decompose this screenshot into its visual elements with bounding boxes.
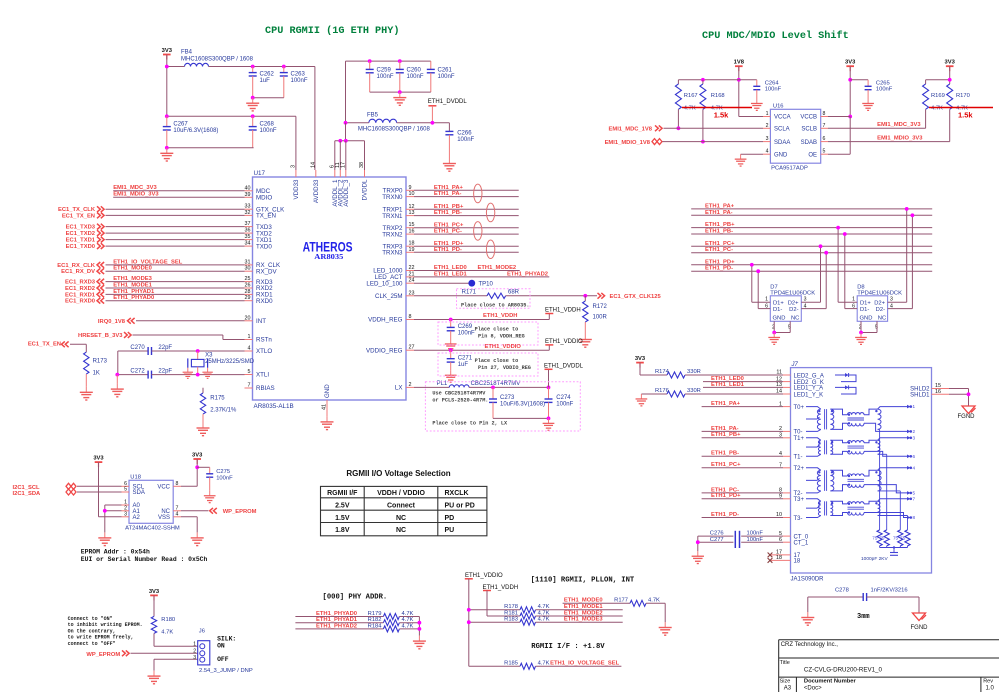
svg-text:ETH1_PB-: ETH1_PB- [711, 451, 739, 457]
svg-text:27: 27 [409, 345, 415, 351]
svg-text:C265: C265 [876, 80, 890, 86]
svg-text:ETH1_PA-: ETH1_PA- [705, 210, 733, 216]
svg-text:to inhibit writing EPROM.: to inhibit writing EPROM. [68, 622, 143, 628]
wire AVDDL manifold [345, 123, 347, 141]
svg-text:100nF: 100nF [458, 331, 475, 337]
svg-text:Document Number: Document Number [804, 678, 857, 684]
U18 pin 7 NC [173, 510, 181, 512]
connector J6 2.54_3_JUMP [198, 641, 210, 665]
svg-text:CRZ Technology Inc.,: CRZ Technology Inc., [781, 642, 839, 648]
J7 pin 6 CT_1 [783, 541, 791, 543]
svg-text:AVDD33: AVDD33 [313, 179, 320, 203]
svg-text:16: 16 [409, 229, 415, 235]
svg-text:ETH1_VDDH: ETH1_VDDH [483, 313, 517, 319]
svg-text:AT24MAC402-SSHM: AT24MAC402-SSHM [125, 526, 180, 532]
svg-text:100nF: 100nF [407, 74, 424, 80]
wire ETH1_VDDH (pin8) [414, 319, 549, 321]
U18 pin 4 VSS [173, 516, 181, 518]
svg-text:4.7K: 4.7K [161, 630, 173, 636]
svg-text:WP_EPROM: WP_EPROM [223, 509, 257, 515]
svg-text:6: 6 [823, 136, 826, 142]
ground under C264 [756, 99, 758, 104]
svg-text:EC1_RXD0: EC1_RXD0 [65, 299, 95, 305]
U17 pin 31 RX_CLK [245, 264, 253, 266]
svg-text:TRXN3: TRXN3 [382, 250, 403, 257]
port EC1_GTX_CLK125 [598, 293, 601, 299]
J7 pin 13 LED1_Y_A [783, 386, 791, 388]
svg-text:R177: R177 [614, 598, 628, 604]
U17 pin 5 XTLI [245, 374, 253, 376]
svg-text:1: 1 [248, 334, 251, 340]
wire R171 to port [506, 295, 597, 297]
resistor R180 4.7K [151, 616, 156, 633]
resistor R177 4.7K [630, 600, 646, 606]
red strike R167/R168 [682, 107, 752, 109]
svg-text:4: 4 [766, 149, 769, 155]
svg-text:TX_EN: TX_EN [256, 213, 276, 220]
svg-text:FB4: FB4 [181, 50, 193, 56]
svg-text:ETH1_PD+: ETH1_PD+ [711, 493, 741, 499]
J7 pin 9 T3+ [783, 498, 791, 500]
svg-text:3: 3 [913, 435, 916, 440]
note box C269 [438, 322, 538, 345]
wire ETH1_PB+ [414, 208, 519, 210]
svg-text:VDDH / VDDIO: VDDH / VDDIO [377, 490, 425, 497]
svg-text:5: 5 [248, 369, 251, 375]
svg-text:NC: NC [791, 316, 799, 322]
svg-text:EMI1_MDC_1V8: EMI1_MDC_1V8 [609, 127, 653, 133]
wire ETH1_IO_VOLTAGE_SEL / R185 [469, 665, 520, 667]
U17 pin 16 TRXN2 [406, 233, 414, 235]
svg-text:R182: R182 [368, 617, 382, 623]
svg-text:C272: C272 [130, 369, 145, 375]
U16 pin 8 VCCB [821, 116, 828, 118]
svg-text:Connect to "ON": Connect to "ON" [68, 616, 113, 622]
svg-text:VCC: VCC [157, 485, 170, 491]
svg-text:100nF: 100nF [260, 128, 277, 134]
svg-text:RX_DV: RX_DV [256, 268, 278, 275]
U17 pin 9 TRXP0 [406, 189, 414, 191]
wire SDAB / EMI1_MDIO_3V3 [828, 141, 950, 143]
U16 pin 2 SCLA [763, 127, 770, 129]
svg-text:C262: C262 [260, 72, 275, 78]
svg-text:3: 3 [193, 655, 196, 661]
svg-text:6: 6 [913, 454, 916, 459]
svg-text:AR8035: AR8035 [314, 253, 343, 261]
J7 pin 10 T3- [783, 517, 791, 519]
svg-text:CLK_25M: CLK_25M [375, 293, 403, 300]
svg-text:R172: R172 [593, 304, 608, 310]
svg-text:75: 75 [900, 536, 906, 541]
svg-text:15: 15 [409, 222, 415, 228]
capacitor C272 22pF (series XTLI) [117, 374, 148, 376]
svg-text:13: 13 [409, 210, 415, 216]
resistor R175 2.37K/1% [202, 388, 204, 393]
wire OE [828, 153, 850, 155]
svg-text:R179: R179 [368, 611, 382, 617]
ground U16 [740, 154, 742, 159]
wire ETH1_MODE2 / R181 [487, 615, 520, 617]
svg-text:1uF: 1uF [458, 362, 469, 368]
svg-text:C273: C273 [500, 395, 515, 401]
svg-text:R171: R171 [462, 289, 477, 295]
svg-text:EPROM Addr : 0x54h: EPROM Addr : 0x54h [81, 549, 150, 556]
ground CT caps [697, 551, 699, 556]
svg-text:10uF/6.3V(1608): 10uF/6.3V(1608) [500, 401, 545, 407]
svg-text:4.7K: 4.7K [538, 604, 550, 610]
svg-text:Connect: Connect [387, 503, 416, 510]
svg-text:100R: 100R [593, 315, 608, 321]
svg-text:25: 25 [245, 276, 251, 282]
U16 pin 6 SDAB [821, 141, 828, 143]
svg-text:75: 75 [879, 536, 885, 541]
svg-text:7: 7 [248, 383, 251, 389]
wire ETH1_PHYAD0 [295, 616, 383, 618]
wire J6 pin3 gnd [154, 658, 198, 660]
diff pair oval ETH1_PA [474, 184, 482, 203]
ground R176 [640, 394, 642, 399]
svg-text:3V3: 3V3 [93, 456, 104, 462]
svg-text:[1110] RGMII, PLLON, INT: [1110] RGMII, PLLON, INT [531, 577, 635, 585]
svg-text:2: 2 [409, 382, 412, 388]
ground bottom-left [166, 148, 168, 154]
svg-text:10uF/6.3V(1608): 10uF/6.3V(1608) [173, 128, 218, 134]
svg-text:CPU MDC/MDIO Level Shift: CPU MDC/MDIO Level Shift [702, 30, 849, 42]
svg-text:18: 18 [794, 559, 801, 565]
svg-text:3V3: 3V3 [635, 356, 646, 362]
svg-text:18: 18 [409, 241, 415, 247]
svg-text:24: 24 [409, 278, 415, 284]
svg-text:ETH1_PD-: ETH1_PD- [711, 512, 739, 518]
svg-text:D2-: D2- [789, 307, 798, 313]
ground phyad [418, 636, 420, 642]
svg-text:CT_0: CT_0 [794, 534, 809, 540]
svg-text:I2C1_SDA: I2C1_SDA [13, 491, 42, 497]
svg-text:EC1_RXD1: EC1_RXD1 [65, 292, 96, 298]
svg-text:10: 10 [409, 191, 415, 197]
J7 pin 16 SHLD1 [932, 393, 950, 395]
svg-text:Size: Size [780, 678, 791, 684]
svg-text:Use CBC2518T4R7MV: Use CBC2518T4R7MV [432, 391, 486, 397]
svg-text:34: 34 [245, 241, 251, 247]
svg-text:GND: GND [860, 316, 873, 322]
svg-text:C261: C261 [438, 68, 453, 74]
svg-text:U17: U17 [254, 170, 266, 177]
U17 pin 28 RXD1 [245, 293, 253, 295]
ground A0/A1 [104, 532, 106, 538]
svg-text:330R: 330R [687, 369, 701, 375]
svg-text:38: 38 [359, 162, 365, 168]
svg-text:ETH1_PA-: ETH1_PA- [434, 191, 462, 197]
resistor R173 1K [84, 352, 89, 374]
bus wire ETH1_PC+ [691, 245, 932, 247]
svg-text:ETH1_MODE3: ETH1_MODE3 [113, 276, 152, 282]
transformer winding ch 1/2 [806, 407, 821, 410]
capacitor C261 100nF [430, 61, 432, 69]
svg-text:R185: R185 [504, 661, 518, 667]
svg-text:U16: U16 [773, 104, 784, 110]
svg-text:EC1_TXD2: EC1_TXD2 [66, 231, 95, 237]
U17 pin 4 XTLO [245, 350, 253, 352]
svg-text:ETH1_MODE2: ETH1_MODE2 [564, 610, 603, 616]
svg-text:MHC1608S300QBP / 1608: MHC1608S300QBP / 1608 [181, 57, 254, 63]
svg-text:EC1_RX_DV: EC1_RX_DV [61, 269, 95, 275]
capacitor C269 100nF [450, 320, 452, 328]
bus wire ETH1_PD+ [691, 264, 932, 266]
svg-text:D8: D8 [857, 284, 864, 290]
svg-text:RXD0: RXD0 [256, 298, 273, 305]
svg-text:R174: R174 [655, 369, 670, 375]
svg-text:C274: C274 [556, 395, 571, 401]
U17 pin 20 INT [245, 320, 253, 322]
wire ETH1_PB- to J7 [702, 455, 783, 457]
svg-text:33: 33 [245, 204, 251, 210]
svg-text:3V3: 3V3 [945, 60, 956, 66]
IC U18 AT24MAC402-SSHM [129, 480, 173, 523]
svg-text:C276: C276 [710, 531, 724, 537]
svg-text:4.7K: 4.7K [538, 610, 550, 616]
svg-text:ETH1_PB+: ETH1_PB+ [434, 204, 464, 210]
svg-text:19: 19 [409, 247, 415, 253]
svg-text:C275: C275 [216, 469, 230, 475]
svg-text:R175: R175 [210, 396, 225, 402]
port WP_EPROM (U18) [181, 510, 208, 512]
svg-text:RXCLK: RXCLK [445, 490, 469, 497]
svg-text:37: 37 [245, 221, 251, 227]
wire EMI1_MDIO_3V3 [113, 196, 244, 198]
wire ETH1_PD+ [414, 245, 519, 247]
svg-text:XTLI: XTLI [256, 372, 269, 379]
resistor R167 [677, 80, 679, 84]
svg-text:RGMII I/O Voltage Selection: RGMII I/O Voltage Selection [346, 469, 450, 478]
capacitor C271 1uF [450, 350, 452, 359]
U17 pin 14 AVDD33 [315, 170, 317, 177]
svg-text:330R: 330R [687, 388, 701, 394]
svg-text:LED2_G_A: LED2_G_A [794, 373, 824, 379]
svg-text:HRESET_B_3V3: HRESET_B_3V3 [78, 333, 123, 339]
svg-text:Place close to Pin 2, LX: Place close to Pin 2, LX [432, 420, 508, 426]
wire ETH1_PD- to J7 [702, 517, 783, 519]
svg-text:100nF: 100nF [291, 78, 308, 84]
svg-text:4.7K: 4.7K [538, 617, 550, 623]
capacitor C263 100nF [283, 67, 285, 73]
U17 pin 30 RX_DV [245, 270, 253, 272]
capacitor C260 100nF [399, 61, 401, 69]
svg-text:T1-: T1- [794, 455, 803, 461]
svg-text:EMI1_MDIO_3V3: EMI1_MDIO_3V3 [113, 192, 159, 198]
svg-text:ETH1_PB-: ETH1_PB- [434, 210, 462, 216]
svg-text:Place close to: Place close to [475, 327, 519, 333]
svg-text:EC1_TX_EN: EC1_TX_EN [62, 213, 95, 219]
J7 pin 14 LED1_Y_K [783, 393, 791, 395]
capacitor C270 22pF (series XTLO) [118, 350, 148, 352]
wire VCC [181, 485, 197, 487]
transformer winding ch 3/6 [806, 438, 821, 441]
svg-text:LED1_Y_K: LED1_Y_K [794, 392, 824, 398]
svg-text:RBIAS: RBIAS [256, 385, 275, 392]
svg-text:ETH1_PA+: ETH1_PA+ [705, 203, 735, 209]
svg-text:C277: C277 [710, 537, 724, 543]
svg-text:D1+: D1+ [773, 301, 784, 307]
svg-text:A3: A3 [784, 685, 792, 691]
capacitor C266 100nF [448, 123, 450, 132]
svg-text:D1-: D1- [773, 307, 782, 313]
svg-text:EC1_TXD3: EC1_TXD3 [66, 225, 96, 231]
wire ETH1_PA- [414, 196, 519, 198]
svg-text:TP10: TP10 [479, 282, 494, 288]
wire D7 gnd [773, 321, 775, 332]
svg-text:EC1_TX_CLK: EC1_TX_CLK [58, 207, 96, 213]
wire 1V8 rail to pullups [678, 79, 738, 81]
U17 pin 40 MDC [245, 190, 253, 192]
capacitor C259 100nF [369, 61, 371, 69]
U17 pin 35 TXD1 [245, 239, 253, 241]
svg-text:R169: R169 [931, 93, 945, 99]
svg-text:MDIO: MDIO [256, 195, 272, 202]
svg-text:C260: C260 [407, 68, 422, 74]
wire SDAA [663, 141, 764, 143]
svg-text:ETH1_VDDIO: ETH1_VDDIO [485, 344, 522, 350]
svg-text:ETH1_PD-: ETH1_PD- [705, 266, 733, 272]
svg-text:SDAA: SDAA [774, 140, 790, 146]
U17 pin 12 TRXP1 [406, 208, 414, 210]
svg-text:C271: C271 [458, 355, 473, 361]
svg-text:A2: A2 [133, 515, 141, 521]
ground under C262 [252, 98, 254, 104]
svg-text:4.7K: 4.7K [684, 106, 696, 112]
U17 pin 37 TXD3 [245, 226, 253, 228]
U17 pin 41 GND [326, 400, 328, 416]
svg-text:T0-: T0- [794, 430, 803, 436]
svg-text:EMI1_MDC_3V3: EMI1_MDC_3V3 [877, 122, 921, 128]
svg-text:3V3: 3V3 [845, 60, 856, 66]
svg-text:1000pF 2KV: 1000pF 2KV [861, 556, 888, 562]
svg-text:R178: R178 [504, 604, 518, 610]
U16 pin 1 VCCA [763, 116, 770, 118]
svg-text:D2+: D2+ [874, 301, 885, 307]
svg-text:26: 26 [245, 283, 251, 289]
svg-text:14: 14 [310, 162, 316, 168]
svg-text:R180: R180 [161, 617, 175, 623]
capacitor C274 100nF [548, 387, 550, 399]
svg-text:ETH1_PB+: ETH1_PB+ [705, 222, 735, 228]
svg-text:3: 3 [290, 165, 296, 168]
svg-text:D1-: D1- [860, 307, 869, 313]
wire bus tap [906, 209, 908, 302]
capacitor C264 100nF [739, 79, 757, 81]
svg-text:ETH1_PHYAD0: ETH1_PHYAD0 [316, 611, 357, 617]
svg-text:EC1_TX_EN: EC1_TX_EN [28, 342, 61, 348]
svg-text:CZ-CVLG-DRU200-REV1_0: CZ-CVLG-DRU200-REV1_0 [804, 667, 883, 674]
capacitor C265 100nF [850, 79, 868, 81]
svg-text:CT_1: CT_1 [794, 541, 809, 547]
svg-text:5: 5 [124, 487, 127, 493]
ground under C266 [448, 158, 450, 164]
TVS diode D8 TPD4E1U06DCK [857, 296, 887, 322]
ground under R173 [85, 387, 87, 393]
svg-text:C266: C266 [457, 131, 472, 137]
svg-text:100nF: 100nF [765, 87, 782, 93]
svg-text:1nF/2KV/3216: 1nF/2KV/3216 [871, 587, 908, 593]
wire ETH1_MODE1 / R178 [469, 609, 520, 611]
svg-text:2.5V: 2.5V [335, 503, 350, 510]
svg-text:JA1S090DR: JA1S090DR [791, 577, 825, 583]
svg-text:EC1_TXD1: EC1_TXD1 [66, 238, 96, 244]
wire 3V3 mid rail [167, 115, 296, 117]
capacitor C275 100nF [197, 466, 210, 468]
ground under R172 [584, 334, 586, 340]
wire D7 pin4 [801, 308, 826, 310]
note box: place close to AR8035 [457, 289, 531, 309]
wire ETH1_PD- [414, 251, 519, 253]
wire LX (pin2) [414, 386, 449, 388]
svg-text:Rev: Rev [983, 678, 993, 684]
resistor R172 100R [584, 296, 586, 301]
J7 pin 2 T0- [783, 430, 791, 432]
ground R177 [664, 622, 666, 628]
svg-text:TRXN1: TRXN1 [382, 213, 403, 220]
svg-text:R170: R170 [956, 93, 970, 99]
transformer winding ch 7/8 [806, 499, 821, 502]
J7 pin 12 LED2_G_K [783, 381, 791, 383]
svg-text:EC1_RXD3: EC1_RXD3 [65, 280, 96, 286]
wire FB4 rail [167, 66, 185, 68]
svg-text:GND: GND [774, 152, 788, 158]
U17 pin 36 TXD2 [245, 232, 253, 234]
svg-text:29: 29 [245, 295, 251, 301]
svg-text:35: 35 [245, 234, 251, 240]
svg-text:PD: PD [445, 515, 455, 522]
svg-text:100nF: 100nF [438, 74, 455, 80]
J7 pin 3 T1+ [783, 437, 791, 439]
svg-text:EC1_RX_CLK: EC1_RX_CLK [57, 263, 96, 269]
svg-text:ETH1_PHYAD1: ETH1_PHYAD1 [113, 289, 155, 295]
wire FB5 row [346, 122, 369, 124]
resistor R174 330R [640, 374, 667, 376]
svg-text:3: 3 [766, 136, 769, 142]
wire D7 pin3 [801, 301, 820, 303]
J7 pin 8 T2- [783, 492, 791, 494]
wire 3V3 rail right [926, 79, 950, 81]
chassis ground FGND (shield) [962, 406, 975, 414]
wire D8 pin6 [845, 308, 857, 310]
note box C271 [438, 353, 538, 376]
bus wire ETH1_PB- [691, 233, 932, 235]
svg-text:GND: GND [324, 384, 331, 398]
svg-text:ETH1_PC+: ETH1_PC+ [705, 241, 735, 247]
wire ETH1_VDDIO (pin27) [414, 349, 549, 351]
wire ETH1_PC+ [414, 227, 519, 229]
svg-text:1.0: 1.0 [986, 685, 995, 691]
svg-text:41: 41 [322, 404, 328, 410]
svg-text:R183: R183 [504, 617, 518, 623]
svg-text:or PCLS-2520-4R7M.: or PCLS-2520-4R7M. [432, 398, 488, 404]
svg-text:8: 8 [409, 314, 412, 320]
svg-text:8: 8 [823, 111, 826, 117]
svg-text:ETH1_PHYAD1: ETH1_PHYAD1 [316, 617, 358, 623]
svg-text:ETH1_PA-: ETH1_PA- [711, 426, 739, 432]
U18 pin 3 A2 [122, 516, 130, 518]
svg-text:VDD33: VDD33 [293, 179, 300, 200]
resistor R176 330R [641, 393, 667, 395]
bus wire ETH1_PB+ [691, 227, 932, 229]
wire D8 pin3 [888, 301, 907, 303]
U18 pin 6 SCL [122, 485, 130, 487]
wire to TP10 (pin24) [414, 282, 472, 284]
svg-text:ETH1_PD+: ETH1_PD+ [705, 259, 735, 265]
svg-text:23: 23 [409, 290, 415, 296]
chassis ground FGND (C278) [913, 613, 926, 621]
